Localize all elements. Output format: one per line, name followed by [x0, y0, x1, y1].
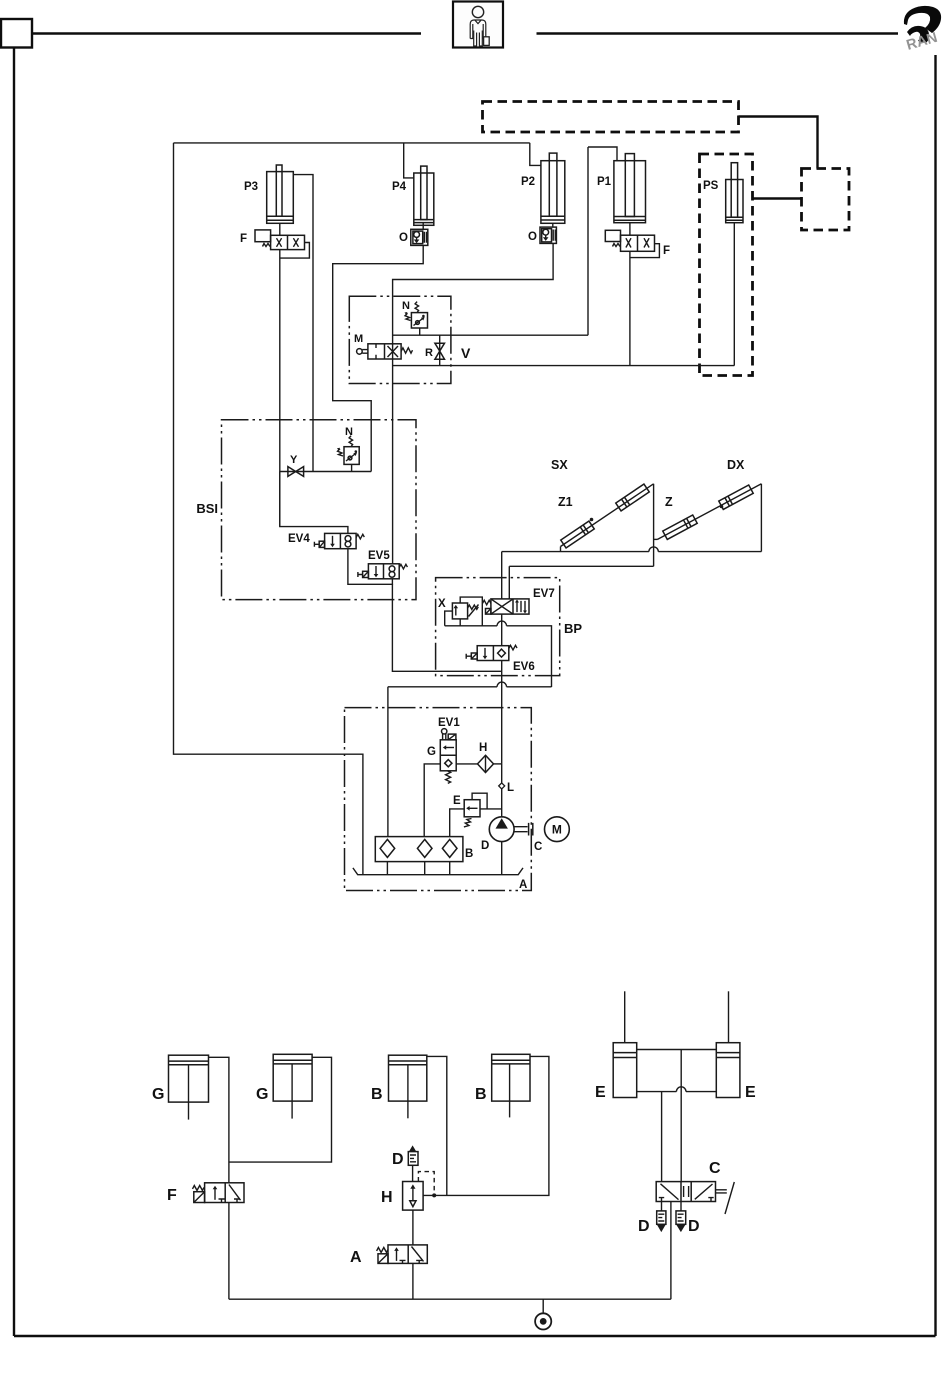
wire feed P1 — [588, 147, 617, 161]
wire E lower link line with bump — [637, 1091, 717, 1093]
wire EV4 to EV5 — [348, 549, 393, 585]
block pump unit border — [345, 708, 532, 891]
cylinder B2 — [492, 1054, 530, 1117]
svg-text:B: B — [475, 1086, 487, 1103]
block V border — [349, 296, 451, 383]
valve F under P1 — [605, 230, 654, 251]
silencer D left under C — [657, 1202, 666, 1233]
silencer D right under C — [676, 1202, 686, 1233]
svg-text:F: F — [663, 245, 670, 257]
coupling Z1 upper — [616, 484, 649, 511]
shutoff valve Y — [288, 467, 304, 477]
wire G2 joins G1 line — [229, 1057, 332, 1162]
filter H — [478, 755, 494, 772]
wire E lower link drop to C — [661, 1092, 663, 1182]
wire P1 rod to valve — [629, 223, 631, 236]
valve F (bottom) — [193, 1183, 245, 1203]
svg-text:G: G — [256, 1086, 268, 1103]
dashed box top (remote control) — [483, 102, 739, 133]
wire A to bus — [412, 1263, 414, 1299]
svg-text:A: A — [519, 879, 527, 891]
svg-text:D: D — [638, 1218, 650, 1235]
wire V gallery bottom line — [393, 365, 735, 367]
svg-text:Z1: Z1 — [558, 495, 573, 509]
wire Z diagonal hose — [658, 484, 762, 540]
solenoid valve EV1 — [440, 729, 456, 784]
wire EV6 down to pump suction gallery — [501, 661, 503, 764]
frame: bottom border — [14, 1335, 936, 1337]
svg-text:PS: PS — [703, 180, 719, 192]
crossover bump on E lower link — [676, 1087, 686, 1092]
svg-text:SX: SX — [551, 458, 568, 472]
wire pump to tank — [501, 842, 503, 875]
cylinder P3 — [267, 165, 294, 223]
svg-text:Y: Y — [290, 454, 298, 466]
svg-text:F: F — [240, 233, 247, 245]
svg-text:G: G — [427, 746, 436, 758]
wire baseline corner down into EV7 — [501, 552, 503, 599]
svg-text:R: R — [425, 347, 433, 359]
svg-text:P4: P4 — [392, 181, 407, 193]
wire PS rod down to gallery — [733, 223, 735, 366]
svg-text:BP: BP — [564, 621, 582, 636]
wire P1 feed riser to V gallery — [587, 147, 589, 335]
wire thick PS to small dashed box — [753, 197, 802, 199]
wire Z1 stub — [560, 547, 562, 552]
wire F to bus — [228, 1203, 230, 1300]
tank A — [353, 868, 523, 875]
suction filter bank B — [375, 837, 463, 862]
wire N2 outlet — [351, 464, 353, 471]
wire P4 valve to Y-branch — [333, 245, 424, 471]
motor M — [545, 817, 570, 842]
wire return drop to filter B1 — [387, 687, 389, 837]
frame: header line right — [537, 32, 899, 34]
wire E pilot loop — [472, 793, 487, 809]
cylinder E1 — [613, 991, 637, 1097]
wire E left port to filter B3 — [450, 809, 465, 837]
wire main top line — [174, 142, 530, 144]
solenoid valve EV7 — [483, 599, 530, 614]
block BP border — [436, 578, 560, 676]
svg-text:H: H — [479, 742, 487, 754]
coupling Z1 lower — [561, 521, 594, 548]
wire N outlet — [419, 328, 421, 335]
wire H to main line — [494, 763, 502, 765]
wire V gallery top line — [393, 334, 588, 336]
wire H to A — [412, 1210, 414, 1245]
wire P3 head side — [293, 175, 313, 472]
svg-text:O: O — [528, 231, 537, 243]
wire C supply to bus — [670, 1202, 672, 1300]
svg-text:D: D — [392, 1151, 404, 1168]
wire P2 rod to valve — [552, 223, 554, 227]
drain point symbol — [535, 1299, 551, 1329]
wire D stem — [412, 1165, 414, 1181]
cylinder P2 — [541, 153, 565, 223]
dashed box around PS — [700, 154, 753, 376]
cylinder P4 — [414, 166, 434, 225]
frame: left border — [13, 48, 15, 1337]
wire B2 drop and H port line — [423, 1056, 549, 1195]
check valve R — [435, 335, 445, 365]
wire G1 to valve F — [209, 1057, 229, 1183]
valve C — [656, 1182, 734, 1214]
wire X top pilot loop — [460, 597, 482, 626]
crossover bump on baseline — [649, 547, 658, 552]
svg-text:EV4: EV4 — [288, 533, 310, 545]
svg-text:B: B — [465, 848, 473, 860]
valve H — [403, 1182, 424, 1211]
wire X left loop — [445, 611, 453, 626]
wire E right port — [480, 808, 502, 810]
cylinder P1 — [614, 154, 646, 223]
valve O under P2 — [540, 227, 556, 243]
solenoid valve EV6 — [466, 645, 517, 660]
svg-text:F: F — [167, 1187, 177, 1204]
svg-text:EV6: EV6 — [513, 661, 535, 673]
svg-text:P3: P3 — [244, 181, 258, 193]
wire EV7 to EV6 main drop — [501, 614, 503, 646]
wire BP channel with bump — [445, 626, 552, 687]
frame: header line left — [32, 32, 421, 34]
wire Y branch to EV4 — [280, 472, 348, 534]
wire SX lower line — [509, 566, 653, 599]
valve O under P4 — [411, 229, 428, 245]
wire SX riser — [653, 484, 655, 567]
wire bottom bus — [229, 1298, 671, 1300]
wire left return loop — [174, 143, 363, 875]
svg-text:O: O — [399, 232, 408, 244]
coupling Z upper — [719, 485, 753, 509]
orifice L — [499, 764, 505, 817]
junction dot Z1 — [590, 518, 594, 522]
wire feed P4 — [404, 143, 414, 178]
relief valve N (BSI) — [337, 436, 359, 465]
junction dot (H pilot) — [432, 1193, 436, 1197]
wire P4 rod to valve — [422, 223, 424, 230]
svg-text:M: M — [552, 823, 562, 837]
svg-text:V: V — [461, 345, 471, 361]
valve A — [377, 1245, 428, 1264]
wire EV1 left port to filter B2 — [424, 764, 440, 837]
cylinder B1 — [389, 1055, 427, 1118]
valve F under P3 — [255, 230, 305, 250]
wires filters to tank — [387, 862, 449, 875]
cylinder E2 — [716, 991, 740, 1097]
wire E top link drop to C — [680, 1050, 682, 1182]
wire P2 valve to EV5 (long drop) — [393, 243, 553, 563]
svg-text:D: D — [688, 1218, 700, 1235]
wire EV5 drop to BP — [392, 584, 501, 671]
wire pump return line with bump — [388, 686, 552, 688]
crossover bump on BP channel — [497, 621, 506, 626]
dashed pilot line to H — [418, 1172, 434, 1194]
svg-text:N: N — [345, 426, 353, 438]
wire DX riser to baseline end — [760, 484, 762, 552]
svg-text:B: B — [371, 1086, 383, 1103]
frame: person icon box — [453, 2, 503, 48]
svg-text:P1: P1 — [597, 176, 612, 188]
svg-text:EV5: EV5 — [368, 550, 390, 562]
svg-text:P2: P2 — [521, 176, 535, 188]
junction dot Z — [720, 505, 724, 509]
cylinder G1 — [169, 1055, 209, 1119]
svg-text:EV1: EV1 — [438, 717, 460, 729]
wire feed P2 — [530, 143, 541, 166]
crossover bump on pump return line — [497, 682, 506, 687]
svg-text:EV7: EV7 — [533, 588, 555, 600]
svg-text:C: C — [709, 1160, 721, 1177]
svg-text:D: D — [481, 840, 489, 852]
pressure reducer X — [452, 603, 478, 619]
wire B1 drop — [427, 1056, 447, 1195]
wire Z1 diagonal hose — [561, 484, 654, 547]
silencer D (top of H) — [408, 1145, 418, 1165]
solenoid valve EV5 — [358, 564, 408, 579]
pump D — [489, 817, 514, 842]
wire P3 valve loop — [280, 243, 310, 259]
shaft and coupling C — [514, 823, 533, 836]
svg-text:A: A — [350, 1249, 362, 1266]
wire P3 rod to valve — [279, 223, 281, 235]
svg-text:C: C — [534, 841, 542, 853]
svg-text:BSI: BSI — [196, 501, 218, 516]
wire P1 valve loop — [630, 244, 660, 258]
wire DX stub — [654, 538, 658, 540]
svg-text:H: H — [381, 1189, 393, 1206]
frame: top-left box — [1, 19, 32, 48]
wire P3 valve down to BSI — [279, 250, 281, 527]
relief valve E — [464, 800, 480, 827]
block BSI border — [222, 420, 417, 600]
svg-text:M: M — [354, 333, 363, 345]
svg-text:E: E — [595, 1084, 606, 1101]
svg-text:DX: DX — [727, 458, 745, 472]
wire Y line — [280, 471, 371, 473]
svg-text:E: E — [745, 1084, 756, 1101]
wire X bottom port — [459, 619, 461, 626]
solenoid valve EV4 — [314, 533, 364, 548]
coupling Z lower — [663, 515, 697, 539]
svg-text:N: N — [402, 300, 410, 312]
svg-text:X: X — [438, 598, 446, 610]
relief valve N (V block) — [405, 302, 428, 328]
cylinder G2 — [273, 1054, 312, 1118]
logo stamp top right — [904, 6, 941, 54]
svg-text:E: E — [453, 795, 461, 807]
svg-text:L: L — [507, 782, 514, 794]
wire E top link line — [637, 1049, 717, 1051]
svg-text:Z: Z — [665, 495, 673, 509]
svg-text:G: G — [152, 1086, 164, 1103]
unloader valve M (V block) — [357, 344, 413, 359]
wire thick connector to small dashed box — [739, 117, 818, 169]
small dashed box right — [802, 169, 850, 231]
wire P1 valve down to gallery — [629, 251, 631, 365]
wire EV1 right port to filter H — [456, 763, 477, 765]
wire SX/DX baseline — [502, 551, 762, 553]
frame: right border — [934, 55, 936, 1336]
cylinder PS — [726, 163, 743, 223]
